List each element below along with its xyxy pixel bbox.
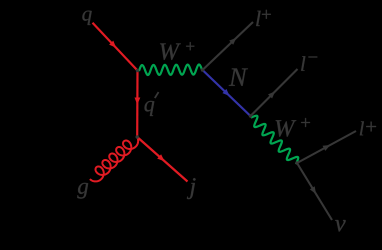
- gluon g curly line: [90, 137, 138, 181]
- wire: lepton l+ line (first): [203, 22, 254, 70]
- label j: [187, 178, 196, 199]
- label W+ (second): [276, 118, 310, 137]
- wire: incoming quark q line: [93, 23, 138, 71]
- node vertex 3: [249, 114, 252, 117]
- boson W+ wavy line (first): [138, 65, 203, 75]
- label l+ (first): [256, 10, 271, 26]
- node vertex 4: [295, 161, 298, 164]
- label W+ (first): [160, 42, 194, 60]
- wire: jet j line: [137, 137, 187, 182]
- label N: [229, 68, 248, 85]
- label q: [82, 11, 91, 25]
- boson W+ wavy line (second): [251, 116, 299, 164]
- wire: neutrino line: [297, 163, 332, 220]
- fermion N line: [203, 70, 251, 116]
- wire: quark q' line: [135, 71, 141, 138]
- label g: [77, 183, 88, 199]
- node vertex 5: [136, 135, 139, 138]
- label l+ (second): [360, 121, 376, 135]
- wire: lepton l+ line (second): [297, 131, 356, 163]
- node vertex 1: [136, 69, 139, 72]
- label q': [145, 92, 160, 116]
- node vertex 2: [201, 68, 204, 71]
- label l-: [301, 56, 317, 71]
- label nu: [335, 220, 346, 231]
- wire: lepton l- line: [251, 69, 298, 116]
